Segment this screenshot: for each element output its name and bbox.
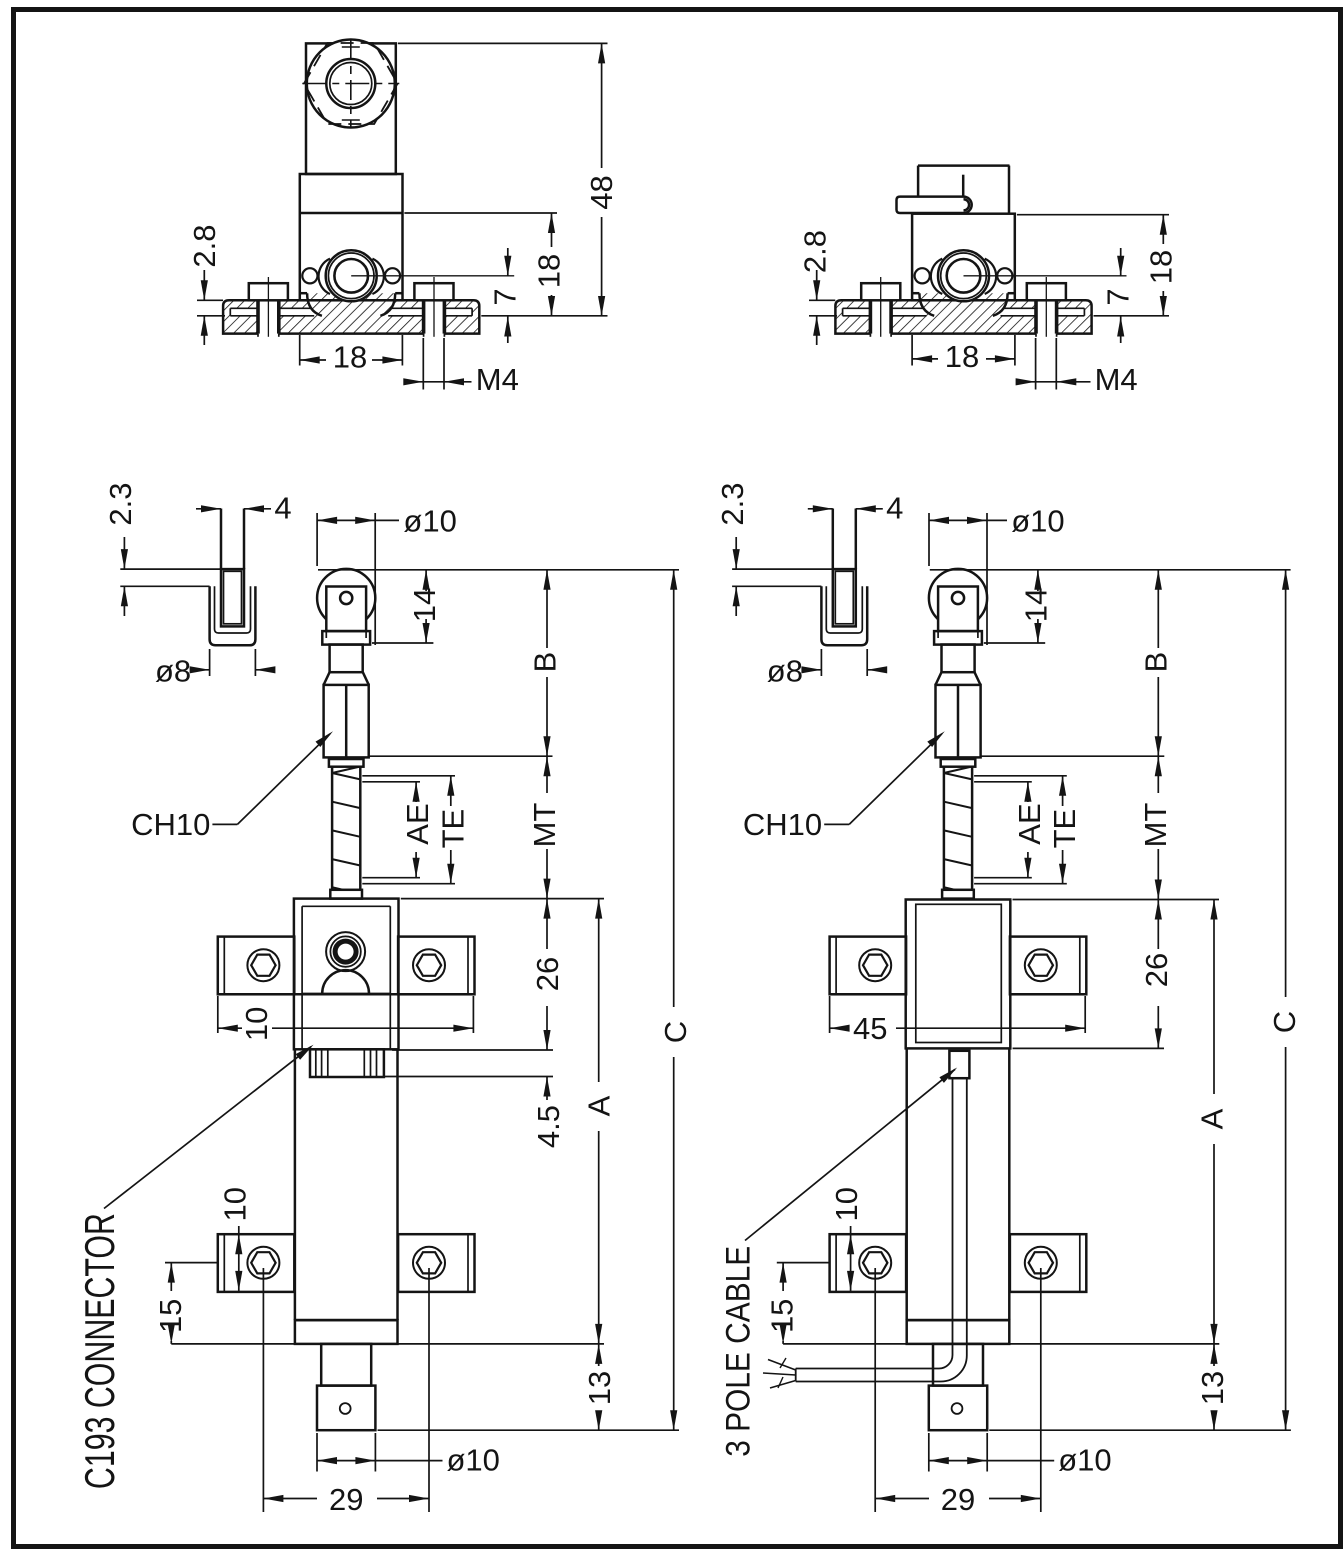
- svg-text:M4: M4: [476, 362, 519, 397]
- svg-text:18: 18: [945, 339, 979, 374]
- svg-text:2.8: 2.8: [798, 230, 833, 273]
- svg-text:MT: MT: [527, 803, 562, 848]
- svg-text:18: 18: [333, 340, 367, 375]
- svg-text:15: 15: [153, 1299, 188, 1333]
- svg-text:18: 18: [1144, 250, 1179, 284]
- svg-text:14: 14: [1019, 588, 1054, 622]
- svg-text:10: 10: [239, 1007, 274, 1041]
- svg-text:ø10: ø10: [403, 504, 456, 539]
- svg-text:C: C: [658, 1021, 693, 1043]
- svg-text:ø8: ø8: [155, 654, 191, 689]
- svg-text:14: 14: [407, 588, 442, 622]
- svg-text:48: 48: [584, 175, 619, 209]
- svg-text:18: 18: [532, 254, 567, 288]
- svg-text:A: A: [582, 1095, 617, 1116]
- svg-text:29: 29: [329, 1482, 363, 1517]
- svg-text:B: B: [1138, 652, 1173, 673]
- svg-text:26: 26: [1139, 953, 1174, 987]
- svg-text:M4: M4: [1095, 362, 1138, 397]
- svg-text:45: 45: [853, 1011, 887, 1046]
- svg-text:CH10: CH10: [131, 807, 210, 842]
- svg-text:MT: MT: [1138, 803, 1173, 848]
- svg-text:13: 13: [1195, 1371, 1230, 1405]
- svg-text:4: 4: [274, 491, 291, 526]
- svg-text:2.3: 2.3: [103, 482, 138, 525]
- svg-text:B: B: [528, 652, 563, 673]
- svg-text:TE: TE: [1047, 809, 1082, 849]
- svg-text:13: 13: [582, 1371, 617, 1405]
- svg-text:2.3: 2.3: [715, 482, 750, 525]
- svg-text:C193 CONNECTOR: C193 CONNECTOR: [76, 1213, 123, 1489]
- svg-text:7: 7: [1101, 288, 1136, 305]
- svg-text:10: 10: [217, 1187, 252, 1221]
- svg-text:15: 15: [765, 1299, 800, 1333]
- svg-text:10: 10: [829, 1187, 864, 1221]
- svg-text:ø10: ø10: [447, 1443, 500, 1478]
- svg-text:TE: TE: [435, 809, 470, 849]
- svg-text:2.8: 2.8: [187, 224, 222, 267]
- svg-text:4.5: 4.5: [531, 1105, 566, 1148]
- svg-text:26: 26: [530, 957, 565, 991]
- svg-text:CH10: CH10: [743, 807, 822, 842]
- svg-text:C: C: [1267, 1011, 1302, 1033]
- svg-text:A: A: [1195, 1108, 1230, 1129]
- svg-text:29: 29: [941, 1482, 975, 1517]
- svg-text:ø8: ø8: [767, 654, 803, 689]
- svg-text:7: 7: [488, 288, 523, 305]
- svg-text:AE: AE: [1012, 803, 1047, 844]
- svg-text:ø10: ø10: [1058, 1443, 1111, 1478]
- svg-text:ø10: ø10: [1011, 504, 1064, 539]
- svg-text:3 POLE CABLE: 3 POLE CABLE: [719, 1246, 757, 1457]
- svg-text:4: 4: [886, 491, 903, 526]
- svg-text:AE: AE: [400, 803, 435, 844]
